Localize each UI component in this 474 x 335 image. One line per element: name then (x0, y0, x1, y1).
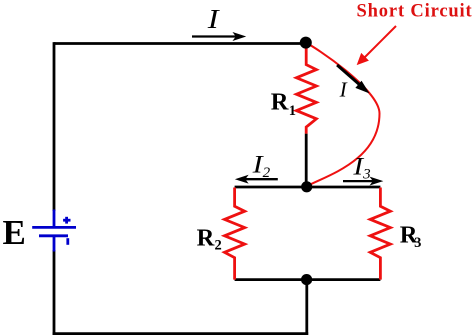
svg-text:2: 2 (215, 238, 222, 254)
svg-text:1: 1 (289, 103, 296, 119)
svg-text:3: 3 (362, 166, 371, 182)
svg-text:I: I (339, 78, 348, 102)
svg-text:R: R (197, 225, 215, 252)
svg-text:E: E (3, 213, 26, 252)
svg-text:R: R (271, 88, 289, 115)
svg-text:Short Circuit: Short Circuit (357, 2, 473, 22)
svg-text:2: 2 (263, 165, 271, 181)
svg-text:3: 3 (414, 235, 421, 251)
